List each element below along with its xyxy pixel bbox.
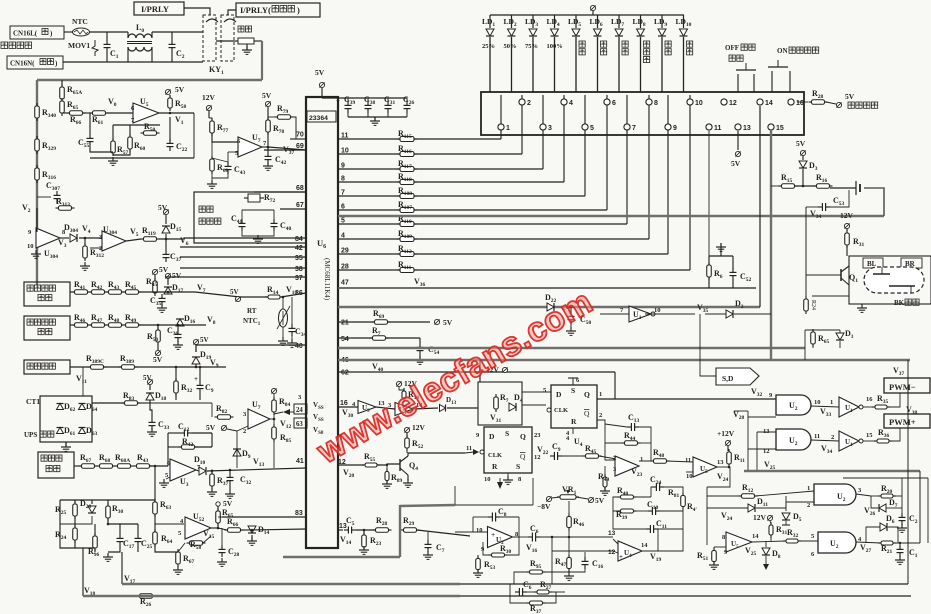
svg-text:41: 41 bbox=[296, 458, 304, 465]
svg-text:5V: 5V bbox=[143, 374, 152, 382]
svg-text:5V: 5V bbox=[206, 423, 216, 432]
transistor Q4 bbox=[400, 456, 418, 475]
pin 6 row with resistor R107 bbox=[338, 95, 607, 213]
capacitor C54 bbox=[415, 338, 440, 364]
svg-text:12V: 12V bbox=[412, 423, 426, 432]
fuse bbox=[216, 26, 262, 44]
and gate U2a bbox=[776, 395, 833, 415]
connector pin 15 bbox=[768, 124, 784, 132]
capacitor C43 bbox=[225, 162, 246, 176]
resistor R31 bbox=[845, 230, 865, 248]
wire R82 feed bbox=[138, 403, 212, 417]
label mains supply bbox=[1, 42, 32, 49]
label V17 bbox=[124, 574, 136, 585]
pin 10 row with resistor R116 bbox=[338, 95, 522, 157]
wire bottom rail 1b bbox=[460, 583, 908, 585]
diode D3 bbox=[799, 161, 818, 172]
box R7b D4 bbox=[478, 382, 522, 425]
thermistor NTC1 bbox=[243, 306, 290, 329]
wire V34 column bbox=[805, 207, 807, 296]
label V13 bbox=[253, 457, 265, 468]
wire Q1 emitter bbox=[812, 256, 849, 296]
label V6 bbox=[180, 236, 189, 247]
IC U6 body bbox=[306, 97, 338, 548]
capacitor C37a bbox=[163, 250, 182, 263]
pin 46 row bbox=[341, 357, 349, 364]
label V1 bbox=[159, 112, 194, 158]
svg-text:ON: ON bbox=[777, 47, 788, 55]
ground R68c bbox=[207, 173, 217, 188]
pin 35 row bbox=[180, 255, 306, 262]
capacitor C7b bbox=[425, 540, 445, 554]
resistor R50b bbox=[147, 327, 160, 345]
power top rail bbox=[590, 5, 595, 15]
wire R85 down bbox=[273, 439, 275, 468]
svg-text:CN16L(: CN16L( bbox=[13, 30, 38, 38]
diode D22 bbox=[545, 293, 557, 311]
svg-text:5V: 5V bbox=[172, 271, 182, 280]
capacitor C55 bbox=[78, 134, 94, 149]
wire cap bank top bbox=[0, 0, 1, 1]
svg-text:NTC: NTC bbox=[72, 17, 88, 26]
transformer CT1 box bbox=[26, 396, 92, 442]
ground C33 bbox=[147, 428, 157, 436]
resistor R119 bbox=[141, 226, 160, 241]
label V8 bbox=[207, 315, 216, 326]
label V33 bbox=[820, 407, 832, 418]
label V34c bbox=[821, 444, 833, 455]
power 5V row21 bbox=[434, 318, 452, 327]
label V22 bbox=[537, 445, 549, 456]
svg-text:I/PRLY(: I/PRLY( bbox=[240, 5, 271, 15]
op-amp U5 bbox=[131, 97, 159, 124]
label U4 bbox=[566, 435, 583, 448]
wire V18 feed bbox=[82, 548, 84, 596]
resistor R35 bbox=[811, 394, 890, 409]
wire thick row 348 bbox=[338, 347, 805, 349]
resistor R32c bbox=[783, 528, 801, 543]
svg-text:(MC68L11K4): (MC68L11K4) bbox=[323, 258, 331, 301]
svg-text:+: + bbox=[619, 553, 623, 561]
resistor R51 bbox=[697, 547, 726, 565]
svg-text:50%: 50% bbox=[504, 43, 517, 50]
diode D63 bbox=[79, 426, 98, 437]
wire R31 to Q1 bbox=[846, 246, 848, 256]
label V16 bbox=[526, 543, 538, 554]
wire U5d out bbox=[752, 541, 818, 542]
power 5V D17 bbox=[165, 271, 181, 285]
diode D15 bbox=[162, 222, 182, 233]
resistor R81 bbox=[668, 488, 698, 513]
resistor R30b bbox=[106, 503, 124, 521]
wire C13 R44 feedback bbox=[605, 424, 651, 461]
resistor R47b bbox=[555, 537, 571, 572]
wire D3 junction bbox=[795, 169, 816, 187]
label V7 bbox=[197, 283, 206, 294]
resistor R44 bbox=[622, 431, 641, 445]
svg-text:7: 7 bbox=[632, 125, 636, 132]
svg-text:2: 2 bbox=[807, 502, 810, 509]
LED LD10 bbox=[676, 15, 693, 92]
op-amp U5c bbox=[685, 457, 724, 480]
LED LD4 bbox=[547, 15, 563, 92]
svg-text:13: 13 bbox=[743, 125, 751, 132]
wire pin83 row bbox=[222, 516, 306, 518]
diode D2 bbox=[705, 299, 771, 318]
op-amp U2b bbox=[476, 527, 519, 554]
svg-text:15: 15 bbox=[776, 125, 784, 132]
svg-text:16: 16 bbox=[796, 100, 804, 107]
resistor R26 bbox=[137, 594, 156, 608]
svg-text:10: 10 bbox=[814, 399, 821, 406]
ground R47C16 bbox=[564, 569, 585, 580]
and gate U2A bbox=[786, 484, 862, 509]
label V34 bbox=[810, 209, 822, 220]
inverter U1a bbox=[600, 306, 695, 322]
wire thick row 46 bbox=[338, 359, 910, 361]
connector pin 11 bbox=[706, 124, 722, 132]
svg-text:−8V: −8V bbox=[537, 502, 551, 511]
ground U304 bbox=[31, 250, 90, 270]
label V37b bbox=[283, 145, 295, 156]
wire U3 out to pin41 bbox=[196, 468, 306, 498]
svg-text:Q: Q bbox=[520, 452, 526, 461]
resistor R68c bbox=[210, 156, 229, 174]
resistor R65 bbox=[60, 98, 79, 116]
crystal oscillator box bbox=[194, 192, 306, 243]
wire C5 to U2b bbox=[417, 530, 470, 540]
capacitor C307 bbox=[37, 181, 61, 203]
resistor R48 bbox=[651, 448, 670, 463]
pin 36 row bbox=[240, 290, 306, 297]
svg-text:): ) bbox=[297, 5, 300, 15]
resistor R78 bbox=[266, 112, 285, 135]
resistor R36 bbox=[811, 428, 892, 443]
label V27 bbox=[860, 543, 872, 554]
capacitor C39 bbox=[336, 95, 356, 117]
ground R37a bbox=[207, 488, 217, 496]
ground speaker bbox=[857, 304, 867, 312]
svg-text:Q: Q bbox=[584, 390, 590, 399]
capacitor C6 bbox=[528, 524, 540, 542]
svg-text:R: R bbox=[492, 462, 498, 471]
ground U5 cluster bbox=[108, 157, 118, 165]
pin 8 row with resistor R118 bbox=[338, 95, 564, 185]
pin 11 row with resistor R115 bbox=[338, 95, 501, 142]
resistor R42b bbox=[179, 437, 198, 449]
resistor R16 bbox=[814, 173, 833, 188]
resistor R52 bbox=[405, 435, 424, 453]
label V18 bbox=[84, 586, 96, 597]
svg-text:BL: BL bbox=[867, 260, 877, 268]
resistor R69 bbox=[372, 309, 391, 324]
resistor R20 bbox=[878, 484, 896, 498]
resistor R49b bbox=[598, 466, 610, 495]
diode D7 bbox=[871, 496, 902, 512]
relay KY1 contacts bbox=[203, 15, 236, 76]
ground C1 bbox=[895, 556, 905, 564]
svg-text:5V: 5V bbox=[845, 92, 855, 101]
wire bottom rail 1 bbox=[122, 583, 460, 585]
capacitor C2 bbox=[169, 32, 185, 62]
svg-text:16: 16 bbox=[340, 400, 348, 407]
pin 70 row bbox=[290, 132, 306, 140]
wire D9 column bbox=[236, 431, 238, 468]
label V10 bbox=[286, 285, 298, 296]
resistor R67b bbox=[176, 549, 195, 567]
pin 40 row bbox=[196, 343, 306, 352]
pin 29 row with resistor R112 bbox=[338, 95, 668, 257]
resistor R37a bbox=[210, 471, 229, 489]
diode D19 bbox=[192, 350, 212, 364]
svg-text:10: 10 bbox=[476, 527, 483, 534]
wire alarm feed bbox=[338, 215, 884, 217]
connector pin 13 bbox=[735, 124, 751, 132]
resistor R60 bbox=[128, 134, 146, 152]
label V20 bbox=[343, 468, 355, 479]
power battery positive bbox=[826, 92, 878, 108]
wire C6b box bbox=[510, 584, 565, 603]
wire LED top rail bbox=[490, 14, 684, 16]
power 5V U7b bbox=[206, 423, 248, 432]
LED LD8 bbox=[633, 15, 650, 92]
varistor MOV1 bbox=[68, 40, 98, 56]
pin 37 row bbox=[165, 275, 306, 282]
op-amp U4e bbox=[618, 541, 648, 561]
resistor R84 bbox=[272, 394, 291, 415]
svg-text:10: 10 bbox=[695, 100, 703, 107]
wire R83 bbox=[92, 400, 152, 418]
diode D14 bbox=[248, 525, 270, 536]
thermistor NTC bbox=[72, 17, 90, 36]
svg-text:13: 13 bbox=[608, 530, 616, 537]
resistor R67 bbox=[79, 453, 98, 468]
op-amp U4c bbox=[613, 455, 643, 476]
resistor R95 bbox=[514, 559, 569, 584]
capacitor C26 bbox=[403, 95, 415, 117]
label 13 12 stubs bbox=[608, 530, 616, 556]
pin 83 label bbox=[295, 510, 303, 517]
diode D10 bbox=[194, 455, 206, 475]
potentiometer VR1 bbox=[537, 485, 605, 511]
svg-text:3: 3 bbox=[548, 125, 552, 132]
op-amp U304b bbox=[99, 225, 126, 252]
label V26 bbox=[864, 506, 876, 517]
ground C35b bbox=[157, 304, 167, 312]
resistor R58 bbox=[168, 95, 187, 111]
ground U3 minus bbox=[159, 477, 170, 487]
box battery positive bbox=[24, 360, 70, 374]
resistor R79 bbox=[268, 104, 296, 139]
capacitor C32 bbox=[227, 473, 252, 486]
capacitor C35b bbox=[150, 294, 166, 307]
wire U5 feedback bbox=[62, 113, 194, 158]
wire R48 to U5c bbox=[667, 461, 693, 472]
resistor R30c bbox=[483, 537, 519, 557]
svg-text:UPS: UPS bbox=[24, 431, 37, 439]
resistor R28b bbox=[373, 516, 392, 532]
wire Q4 collector to CLK bbox=[408, 445, 479, 456]
label V9 bbox=[210, 358, 219, 369]
svg-text:MOV1: MOV1 bbox=[68, 41, 90, 50]
svg-text:5V: 5V bbox=[159, 265, 169, 274]
svg-text:CLK: CLK bbox=[554, 407, 568, 414]
flip-flop FF2 bbox=[476, 427, 541, 483]
svg-text:10: 10 bbox=[654, 307, 661, 314]
box I/PRLY charger bbox=[236, 3, 320, 17]
wire battery+ row bbox=[70, 364, 226, 400]
diode D8 bbox=[762, 541, 781, 570]
power 5V R78 bbox=[262, 91, 272, 112]
label UPS output bbox=[24, 431, 54, 439]
svg-text:S: S bbox=[505, 429, 509, 438]
svg-text:25%: 25% bbox=[482, 43, 495, 50]
resistor R57 bbox=[111, 138, 129, 156]
svg-text:67: 67 bbox=[296, 202, 304, 209]
label V12 bbox=[280, 419, 292, 430]
resistor R24 bbox=[55, 525, 77, 543]
svg-text:1: 1 bbox=[599, 391, 602, 398]
wire mains bus right bbox=[261, 41, 263, 80]
svg-text:11: 11 bbox=[466, 445, 472, 452]
connector pin 7 bbox=[624, 124, 636, 132]
wire mid rail 506 bbox=[400, 505, 455, 506]
svg-text:Q: Q bbox=[520, 432, 526, 441]
pin 21 row bbox=[338, 320, 430, 327]
resistor R43b bbox=[134, 453, 153, 468]
capacitor C9c bbox=[550, 442, 562, 460]
inverter U9 bbox=[352, 400, 385, 414]
resistor R61 bbox=[90, 111, 109, 126]
wire U7b out bbox=[270, 409, 294, 427]
svg-text:CLK: CLK bbox=[488, 452, 502, 459]
LED LD1 bbox=[482, 15, 495, 92]
wire battery to alarm bbox=[864, 188, 884, 216]
resistor R65A bbox=[60, 84, 83, 102]
svg-text:BK: BK bbox=[894, 299, 905, 307]
svg-text:100%: 100% bbox=[547, 43, 563, 50]
wire 46 to FF bbox=[479, 360, 481, 382]
svg-text:16: 16 bbox=[866, 396, 873, 403]
wire V5 to pin84 bbox=[126, 234, 306, 250]
connector CN16N box bbox=[7, 56, 63, 69]
svg-text:10: 10 bbox=[686, 473, 693, 480]
svg-text:13: 13 bbox=[717, 459, 724, 466]
capacitor C41 bbox=[231, 214, 246, 231]
power 12V Q4 bbox=[404, 423, 425, 438]
label V25c bbox=[764, 460, 776, 471]
wire pin16 chain bbox=[376, 407, 478, 409]
label V23 bbox=[631, 467, 643, 478]
power 12V FF bbox=[486, 365, 508, 374]
capacitor C17 bbox=[117, 534, 135, 550]
connector pin 14 bbox=[757, 99, 773, 107]
resistor R53 bbox=[476, 555, 496, 573]
wire U4e inputs bbox=[613, 529, 658, 553]
svg-text:12V: 12V bbox=[753, 513, 767, 522]
flag S,D bbox=[700, 314, 759, 385]
resistor R7b bbox=[494, 393, 509, 412]
diode D6 bbox=[880, 514, 895, 531]
inverter U1d bbox=[831, 431, 873, 451]
svg-text:RT: RT bbox=[247, 307, 257, 315]
svg-text:PWM+: PWM+ bbox=[889, 417, 916, 427]
label VSS pins bbox=[294, 394, 324, 436]
ground U52 bbox=[173, 558, 227, 574]
ground FF2 bbox=[503, 473, 513, 484]
wire bottom rail 2 bbox=[83, 595, 460, 597]
and gate U2d bbox=[763, 428, 820, 455]
power 12V R31 bbox=[840, 211, 854, 231]
connector pin 16 bbox=[788, 99, 804, 107]
box PWM+ bbox=[884, 405, 930, 441]
power 5V D3 bbox=[796, 139, 806, 160]
wire right down bbox=[919, 471, 921, 543]
resistor R77 bbox=[209, 118, 229, 136]
ground R53 bbox=[473, 569, 483, 577]
wire DC- row bbox=[70, 324, 206, 330]
pin 16 row bbox=[338, 400, 358, 407]
resistor R50a bbox=[141, 122, 160, 135]
svg-text:1: 1 bbox=[506, 125, 510, 132]
connector pin 9 bbox=[665, 124, 677, 132]
svg-text:5V: 5V bbox=[158, 203, 168, 212]
power 5V R65c bbox=[216, 499, 233, 511]
label V19 bbox=[650, 552, 662, 563]
power 12V U10 bbox=[396, 379, 417, 388]
resistor R32a bbox=[174, 378, 193, 396]
resistor R6 bbox=[707, 262, 723, 280]
power +12V R11 bbox=[717, 429, 735, 451]
capacitor C42 bbox=[265, 152, 287, 166]
pin 4 row with resistor R109 bbox=[338, 95, 649, 242]
pin 69 row bbox=[264, 143, 306, 150]
wire U5c out bbox=[707, 464, 730, 545]
svg-text:5V: 5V bbox=[731, 159, 741, 168]
buffer U1c bbox=[839, 396, 873, 417]
capacitor C34 bbox=[289, 324, 307, 338]
resistor R27 bbox=[534, 580, 552, 594]
capacitor C36 bbox=[167, 326, 182, 342]
label V35 bbox=[697, 303, 709, 314]
capacitor C11 bbox=[646, 519, 667, 533]
pin 42 row bbox=[180, 245, 306, 252]
resistor R389C bbox=[86, 354, 107, 369]
wire C8 feedback bbox=[455, 517, 519, 537]
svg-text:47: 47 bbox=[341, 280, 349, 287]
svg-text:14: 14 bbox=[765, 100, 773, 107]
diode D61 bbox=[57, 426, 76, 437]
svg-text:38: 38 bbox=[295, 266, 303, 273]
connector pin 3 bbox=[540, 124, 552, 132]
resistor R39 bbox=[616, 509, 648, 521]
svg-text:21: 21 bbox=[341, 320, 349, 327]
diode D17 bbox=[164, 283, 184, 294]
svg-text:9: 9 bbox=[673, 125, 677, 132]
pin 38 row bbox=[180, 266, 306, 273]
diode D13 bbox=[440, 396, 457, 412]
power 5V D15 bbox=[158, 203, 169, 224]
svg-text:83: 83 bbox=[295, 510, 303, 517]
diode D62 bbox=[57, 402, 76, 413]
svg-text:14: 14 bbox=[752, 533, 759, 540]
resistor R12 bbox=[707, 483, 758, 498]
pin 5 row with resistor R110 bbox=[338, 95, 627, 227]
svg-text:12: 12 bbox=[534, 454, 541, 461]
svg-text:4: 4 bbox=[569, 100, 573, 107]
resistor R49 bbox=[123, 313, 142, 327]
wire R6C52 bbox=[709, 243, 733, 288]
